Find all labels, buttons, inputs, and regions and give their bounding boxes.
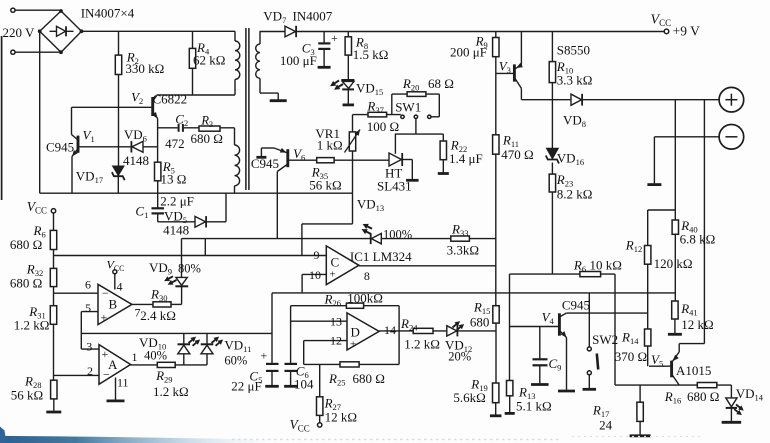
- svg-text:C: C: [331, 255, 340, 270]
- svg-text:C945: C945: [46, 140, 74, 155]
- svg-text:A1015: A1015: [676, 363, 711, 378]
- svg-text:330 kΩ: 330 kΩ: [125, 61, 164, 76]
- svg-text:680 Ω: 680 Ω: [191, 131, 223, 146]
- svg-text:D: D: [351, 325, 360, 340]
- svg-text:80%: 80%: [178, 262, 201, 276]
- svg-text:2.4 kΩ: 2.4 kΩ: [140, 308, 176, 323]
- svg-text:100 Ω: 100 Ω: [367, 119, 399, 134]
- svg-text:+: +: [102, 347, 109, 361]
- svg-text:13: 13: [330, 315, 342, 329]
- svg-text:4: 4: [117, 280, 123, 294]
- svg-text:13 Ω: 13 Ω: [161, 172, 187, 187]
- svg-text:5.6kΩ: 5.6kΩ: [453, 390, 485, 405]
- svg-text:220 V: 220 V: [3, 25, 36, 40]
- svg-text:C6822: C6822: [153, 92, 188, 107]
- svg-text:8.2 kΩ: 8.2 kΩ: [557, 187, 593, 202]
- svg-text:22 μF: 22 μF: [231, 379, 261, 394]
- svg-text:3.3kΩ: 3.3kΩ: [447, 243, 479, 258]
- svg-text:3: 3: [86, 340, 92, 354]
- svg-text:−: −: [102, 286, 109, 300]
- svg-text:680 Ω: 680 Ω: [353, 371, 385, 386]
- svg-text:12: 12: [330, 334, 342, 348]
- svg-text:IN4007: IN4007: [293, 9, 333, 24]
- svg-text:6.8 kΩ: 6.8 kΩ: [680, 232, 716, 247]
- svg-text:24: 24: [599, 418, 613, 433]
- svg-text:40%: 40%: [144, 349, 167, 363]
- svg-text:5: 5: [85, 301, 91, 315]
- svg-text:120 kΩ: 120 kΩ: [654, 256, 693, 271]
- svg-text:1.5 kΩ: 1.5 kΩ: [353, 47, 389, 62]
- svg-text:2: 2: [87, 364, 93, 378]
- svg-text:9: 9: [314, 248, 320, 262]
- svg-text:+: +: [350, 339, 356, 351]
- svg-text:+: +: [331, 31, 338, 45]
- svg-text:11: 11: [117, 376, 129, 390]
- svg-text:1.2 kΩ: 1.2 kΩ: [14, 318, 50, 333]
- svg-text:SW1: SW1: [395, 100, 421, 115]
- svg-text:200 μF: 200 μF: [450, 45, 487, 60]
- svg-text:4148: 4148: [163, 223, 189, 238]
- svg-text:104: 104: [294, 377, 314, 392]
- svg-text:56 kΩ: 56 kΩ: [309, 178, 341, 193]
- svg-text:1.2 kΩ: 1.2 kΩ: [153, 384, 189, 399]
- svg-text:680 Ω: 680 Ω: [10, 276, 42, 291]
- svg-text:1.4 μF: 1.4 μF: [449, 151, 483, 166]
- svg-text:IC1 LM324: IC1 LM324: [350, 249, 412, 264]
- svg-text:3.3 kΩ: 3.3 kΩ: [557, 73, 593, 88]
- svg-text:10 kΩ: 10 kΩ: [590, 258, 622, 273]
- svg-text:68 Ω: 68 Ω: [428, 76, 454, 91]
- svg-text:100%: 100%: [383, 227, 412, 241]
- svg-text:+: +: [330, 269, 336, 281]
- svg-text:1.2 kΩ: 1.2 kΩ: [404, 337, 440, 352]
- svg-text:470 Ω: 470 Ω: [501, 147, 533, 162]
- svg-text:100 μF: 100 μF: [280, 53, 317, 68]
- svg-text:IN4007×4: IN4007×4: [81, 6, 135, 21]
- svg-text:10: 10: [309, 268, 321, 282]
- svg-text:12 kΩ: 12 kΩ: [325, 410, 357, 425]
- svg-text:4148: 4148: [123, 153, 149, 168]
- svg-text:680 Ω: 680 Ω: [687, 389, 719, 404]
- svg-text:+9 V: +9 V: [673, 24, 700, 39]
- svg-text:SW2: SW2: [592, 332, 618, 347]
- svg-text:100kΩ: 100kΩ: [347, 291, 383, 306]
- svg-text:−: −: [103, 368, 110, 382]
- svg-text:8: 8: [364, 269, 370, 283]
- svg-text:6: 6: [85, 278, 91, 292]
- svg-text:60%: 60%: [224, 354, 247, 368]
- svg-text:56 kΩ: 56 kΩ: [11, 388, 43, 403]
- svg-text:B: B: [109, 297, 118, 312]
- svg-text:20%: 20%: [448, 350, 471, 364]
- svg-text:14: 14: [384, 323, 396, 337]
- svg-text:680 Ω: 680 Ω: [10, 237, 42, 252]
- svg-text:370 Ω: 370 Ω: [615, 349, 647, 364]
- svg-text:1: 1: [132, 350, 138, 364]
- svg-text:SL431: SL431: [377, 179, 412, 194]
- svg-text:+: +: [101, 311, 108, 325]
- svg-text:5.1 kΩ: 5.1 kΩ: [516, 399, 552, 414]
- svg-text:472: 472: [165, 136, 185, 151]
- svg-text:2.2 μF: 2.2 μF: [160, 194, 194, 209]
- svg-text:+: +: [261, 349, 268, 363]
- svg-text:62 kΩ: 62 kΩ: [193, 53, 225, 68]
- svg-text:680: 680: [470, 315, 490, 330]
- svg-text:S8550: S8550: [557, 43, 590, 58]
- svg-text:C945: C945: [251, 156, 279, 171]
- svg-text:12 kΩ: 12 kΩ: [681, 317, 713, 332]
- svg-text:1 kΩ: 1 kΩ: [317, 138, 343, 153]
- svg-text:C945: C945: [562, 298, 590, 313]
